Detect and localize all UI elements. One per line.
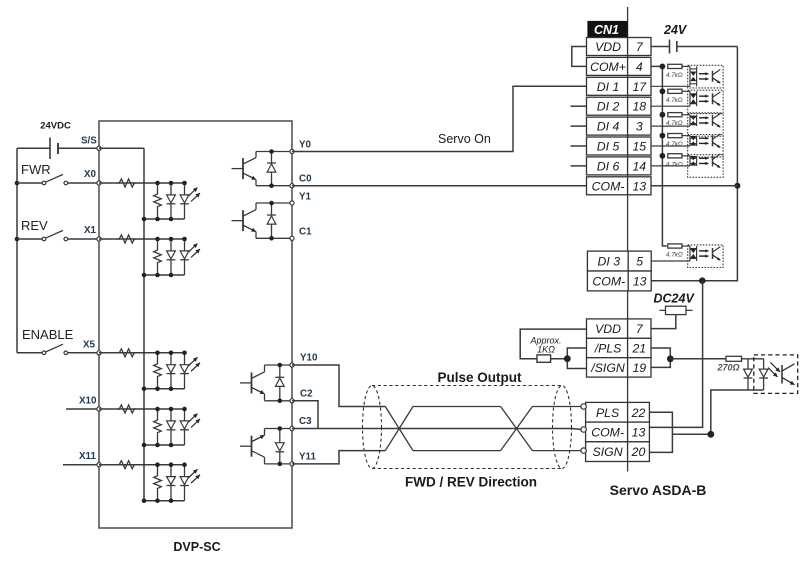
wire COM- 13 to rail [651, 185, 737, 187]
shielded cable outline (dashed capsule) [363, 386, 572, 469]
svg-text:DI 3: DI 3 [598, 255, 621, 269]
wire DI row 5 to opto [651, 165, 690, 167]
pin DI 2 18 [587, 97, 652, 115]
pin DI 4 3 [587, 117, 652, 135]
optocoupler DI isolator 6 [688, 245, 723, 268]
wire stub into DI 4 [571, 125, 587, 127]
LED light arrows X11 [189, 469, 198, 478]
diode clamp X5 [170, 353, 172, 365]
diode reverse clamp [747, 359, 749, 369]
wire resistor to opto 3 [682, 114, 690, 116]
svg-text:13: 13 [633, 274, 647, 288]
wire collector rail Q4 (C3/Y11) [265, 428, 293, 430]
node junctions X0 [142, 181, 187, 222]
wire collector rail Q1 (Y0/C0) [256, 151, 292, 153]
node 4.7k rail tap 2 [660, 88, 666, 94]
wire crossover 1 falling [385, 407, 413, 451]
wire VDD to Approx 1K resistor [520, 329, 586, 359]
wire resistor to opto 6 [682, 245, 690, 247]
node terminal C1 [290, 236, 294, 240]
wire C3 / cable middle to COM- [292, 429, 582, 430]
svg-text:COM-: COM- [591, 425, 624, 439]
resistor series X10 [117, 405, 137, 413]
svg-text:Y11: Y11 [299, 452, 316, 463]
LED opto-input X5 [184, 353, 186, 365]
diode flyback Q3 (Y10/C2) [275, 365, 284, 401]
wire stub into DI 5 [571, 145, 587, 147]
svg-text:14: 14 [632, 159, 646, 173]
wire top mid run [413, 406, 501, 408]
optocoupler DI isolator 4 [688, 134, 723, 157]
svg-text:DI 1: DI 1 [597, 80, 620, 94]
svg-text:PLS: PLS [596, 406, 620, 420]
diode clamp X1 [170, 239, 172, 251]
wire left-rail top to battery [17, 147, 50, 149]
resistor series X11 [117, 461, 137, 469]
wire emitter rail Q2 (Y1/C1) [256, 237, 292, 239]
node DI3 COM- junction [699, 277, 706, 284]
battery B1 24VDC [50, 138, 58, 160]
wire rail to switch FWR [17, 182, 42, 184]
LED opto-input X11 [184, 465, 186, 477]
svg-text:FWR: FWR [21, 162, 51, 177]
diode clamp X10 [170, 409, 172, 421]
svg-text:21: 21 [631, 342, 646, 356]
wire junction to 270 ohm [670, 358, 726, 360]
svg-text:4.7kΩ: 4.7kΩ [666, 120, 683, 127]
wire battery to S/S terminal [58, 147, 99, 149]
resistor 270 ohm [726, 356, 742, 361]
pin DI 1 17 [587, 77, 652, 95]
svg-text:ENABLE: ENABLE [22, 327, 74, 342]
pin COM- 13 [587, 177, 652, 195]
wire cable bottom to SIGN [532, 450, 581, 452]
node /PLS //SIGN junction [667, 355, 674, 362]
svg-text:S/S: S/S [81, 136, 97, 147]
wire stub into DI 6 [571, 165, 587, 167]
resistor 4.7k 2 [668, 89, 682, 93]
pin /PLS 21 [587, 338, 652, 357]
switch FWR [42, 174, 67, 184]
node terminal PLS cable [581, 404, 586, 409]
wire DI row 2 to opto [651, 105, 690, 107]
node terminal C2 [290, 399, 294, 403]
svg-text:COM-: COM- [592, 274, 625, 288]
node terminal C0 [290, 184, 294, 188]
wire Y10 to cable top [292, 365, 385, 407]
wire collector rail Q3 (Y10/C2) [265, 364, 293, 366]
diode flyback Q1 (Y0/C0) [267, 152, 276, 186]
wire resistor to opto 4 [682, 135, 690, 137]
DVP-SC PLC enclosure box [99, 121, 292, 528]
diode clamp X11 [170, 465, 172, 477]
resistor 4.7k 6 [668, 244, 682, 248]
node diode joints Q4 (C3/Y11) [278, 426, 283, 466]
wire REV switch to X1 [68, 238, 99, 240]
svg-text:DI 2: DI 2 [597, 100, 620, 114]
node 4.7k rail tap 5 [660, 153, 666, 159]
node LED return junction [707, 431, 714, 438]
svg-text:24VDC: 24VDC [40, 121, 71, 132]
node junctions X1 [142, 237, 187, 278]
svg-text:15: 15 [632, 140, 646, 154]
left common rail [16, 148, 18, 352]
wire crossover 2 rising [501, 407, 533, 451]
svg-text:Y1: Y1 [299, 192, 312, 203]
wire Servo On: Y0 to DI1 [292, 86, 587, 151]
wire bracket to LED return node [672, 433, 710, 435]
node terminal S/S [97, 146, 101, 150]
resistor shunt X1 [154, 239, 162, 274]
node terminal X0 [97, 181, 101, 185]
node junctions X10 [142, 407, 187, 448]
resistor 4.7k 5 [668, 154, 682, 158]
svg-text:5: 5 [636, 255, 643, 269]
wire X10 input [99, 408, 185, 410]
wire DI row 4 to opto [651, 145, 690, 147]
wire rail to switch REV [17, 238, 42, 240]
optocoupler servo pulse input box [754, 355, 798, 394]
svg-text:X11: X11 [79, 451, 96, 462]
wire PLS-SIGN right bracket [649, 412, 672, 452]
wire network bottom rail X5 [144, 388, 185, 390]
svg-text:17: 17 [632, 80, 647, 94]
svg-text:X0: X0 [84, 169, 97, 180]
pin DI 5 15 [587, 137, 652, 155]
phototransistor servo input [782, 364, 795, 385]
node junctions X11 [142, 462, 187, 503]
svg-text:VDD: VDD [595, 322, 621, 336]
LED opto-input X1 [184, 239, 186, 251]
node COM- 13 to rail [734, 183, 740, 189]
transistor output Q2 (Y1/C1) [232, 203, 257, 238]
node 4.7k rail tap 3 [660, 112, 666, 118]
node terminal C3 [290, 426, 294, 430]
svg-text:C3: C3 [299, 416, 312, 427]
svg-text:C0: C0 [299, 174, 312, 185]
svg-text:270Ω: 270Ω [717, 363, 740, 373]
node terminal X11 [97, 463, 101, 467]
wire emitter rail Q1 (Y0/C0) [256, 185, 292, 187]
node 1K junction [564, 355, 571, 362]
wire bottom mid run [413, 450, 501, 452]
LED light arrows X1 [189, 244, 198, 253]
node 4.7k rail tap 4 [660, 133, 666, 139]
wire S/S terminal to common rail [99, 147, 144, 149]
svg-text:SIGN: SIGN [593, 445, 623, 459]
wire network bottom rail X0 [144, 218, 185, 220]
svg-text:24V: 24V [663, 23, 688, 37]
svg-text:DI 6: DI 6 [597, 159, 620, 173]
svg-text:18: 18 [632, 100, 646, 114]
resistor shunt X5 [154, 353, 162, 388]
node junctions X5 [142, 351, 187, 392]
node terminal Y10 [290, 363, 294, 367]
wire Y11 to cable bottom [292, 451, 385, 464]
resistor 4.7k 1 [668, 64, 682, 68]
resistor 4.7k 3 [668, 113, 682, 117]
resistor shunt X0 [154, 183, 162, 218]
diode flyback Q2 (Y1/C1) [267, 203, 276, 238]
wire 1K resistor to /PLS //SIGN bracket [551, 358, 568, 360]
svg-text:Servo ASDA-B: Servo ASDA-B [610, 482, 707, 498]
svg-text:REV: REV [21, 218, 48, 233]
node terminal X5 [97, 351, 101, 355]
svg-text:DC24V: DC24V [654, 292, 696, 306]
pin DI 6 14 [587, 157, 652, 175]
LED light arrows X5 [189, 357, 198, 366]
wire DI row 1 to opto [651, 85, 690, 87]
wire stub into DI 2 [571, 105, 587, 107]
wire VDD-COM+ left bracket [572, 47, 587, 67]
svg-text:CN1: CN1 [594, 23, 619, 37]
svg-text:7: 7 [636, 322, 644, 336]
svg-text:Servo On: Servo On [438, 132, 491, 146]
vertical bus line through connector tables [627, 7, 629, 472]
LED opto-input X0 [184, 183, 186, 195]
node FWR tap [15, 181, 20, 186]
wire DI3 row to opto [651, 260, 690, 262]
svg-text:/SIGN: /SIGN [590, 361, 625, 375]
svg-text:4.7kΩ: 4.7kΩ [666, 141, 683, 148]
resistor Approx 1K [537, 355, 551, 362]
svg-text:FWD / REV Direction: FWD / REV Direction [405, 475, 537, 490]
node diode joints Q3 (Y10/C2) [278, 363, 283, 403]
optocoupler DI isolator 1 [688, 65, 723, 88]
switch ENABLE [42, 344, 67, 354]
wire X0 input [99, 182, 185, 184]
wire network bottom rail X1 [144, 274, 185, 276]
svg-text:Y0: Y0 [299, 140, 312, 151]
diode clamp X0 [170, 183, 172, 195]
node diode joints Q1 (Y0/C0) [269, 149, 274, 188]
transistor output Q3 (Y10/C2) [240, 365, 265, 401]
pin VDD 7 [587, 38, 652, 56]
pin VDD 7 [587, 319, 652, 338]
LED opto-input X10 [184, 409, 186, 421]
wire X1 input [99, 238, 185, 240]
wire X5 input [99, 352, 185, 354]
svg-text:20: 20 [631, 445, 646, 459]
wire COM- to upper COM- rail [649, 281, 702, 428]
wire VDD 7 to capacitor [651, 46, 670, 48]
svg-text:C2: C2 [300, 389, 313, 400]
wire network bottom rail X10 [144, 444, 185, 446]
transistor output Q1 (Y0/C0) [232, 152, 257, 186]
svg-text:13: 13 [632, 425, 646, 439]
svg-text:1KΩ: 1KΩ [537, 345, 555, 355]
wire resistor to opto 1 [682, 65, 690, 67]
resistor series X5 [117, 349, 137, 357]
power supply DC24V fuse symbol [659, 306, 692, 314]
svg-text:COM+: COM+ [590, 60, 626, 74]
svg-text:19: 19 [632, 361, 646, 375]
wire C2-C3 jumper [292, 401, 318, 429]
resistor shunt X10 [154, 409, 162, 444]
LED light arrows [768, 368, 778, 378]
svg-text:3: 3 [636, 120, 643, 134]
svg-text:DVP-SC: DVP-SC [173, 540, 220, 554]
capacitor 24V supply [670, 40, 677, 54]
wire cable top to PLS [532, 406, 581, 408]
svg-text:Y10: Y10 [300, 353, 318, 364]
wire ENABLE switch to X5 [68, 352, 99, 354]
svg-text:X1: X1 [84, 225, 97, 236]
svg-text:DI 4: DI 4 [597, 120, 620, 134]
node 4.7k rail tap 1 [660, 64, 666, 70]
resistor 4.7k 4 [668, 134, 682, 138]
wire /PLS /SIGN left bracket [567, 348, 586, 369]
svg-text:4.7kΩ: 4.7kΩ [666, 97, 683, 104]
wire DI row 3 to opto [651, 125, 690, 127]
pin COM+ 4 [587, 57, 652, 75]
wire COM+ 4.7k rail [651, 66, 667, 246]
wire resistor to opto 5 [682, 155, 690, 157]
optocoupler DI isolator 3 [688, 114, 723, 137]
wire X11 stub [63, 464, 99, 466]
node terminal Y11 [290, 462, 294, 466]
wire network bottom rail X11 [144, 500, 185, 502]
pin COM- 13 [586, 422, 650, 442]
wire rail to switch ENABLE [17, 352, 42, 354]
wire X10 stub [66, 408, 99, 410]
svg-text:4: 4 [636, 60, 643, 74]
pin COM- 13 [587, 271, 651, 291]
LED light arrows X10 [189, 414, 198, 423]
wire crossover 1 rising [385, 407, 413, 451]
wire /PLS right [651, 348, 670, 359]
wire /SIGN right [651, 359, 670, 368]
wire right 24V rail down [651, 47, 737, 281]
resistor series X1 [117, 235, 137, 243]
wire resistor to opto 2 [682, 90, 690, 92]
node terminal Y1 [290, 201, 294, 205]
wire FWR switch to X0 [68, 182, 99, 184]
svg-text:4.7kΩ: 4.7kΩ [666, 252, 683, 259]
node REV tap [15, 237, 20, 242]
switch REV [42, 230, 67, 240]
resistor shunt X11 [154, 465, 162, 500]
connector CN1 header [587, 21, 627, 37]
svg-text:4.7kΩ: 4.7kΩ [666, 72, 683, 79]
node terminal COM- cable [581, 427, 586, 432]
node terminal Y0 [290, 149, 294, 153]
node terminal X10 [97, 407, 101, 411]
diode flyback Q4 (C3/Y11) [275, 429, 284, 464]
svg-text:DI 5: DI 5 [597, 140, 620, 154]
node terminal SIGN cable [581, 448, 586, 453]
wire emitter rail Q3 (Y10/C2) [265, 400, 293, 402]
wire collector rail Q2 (Y1/C1) [256, 202, 292, 204]
svg-text:X5: X5 [83, 340, 96, 351]
S/S common rail inside PLC [143, 148, 145, 500]
wire DC24V to VDD 7 [651, 315, 676, 329]
svg-text:C1: C1 [299, 227, 312, 238]
svg-text:13: 13 [632, 179, 646, 193]
wire LED return [711, 390, 764, 434]
pin PLS 22 [586, 402, 650, 422]
optocoupler DI isolator 5 [688, 154, 723, 177]
wire capacitor to right rail [677, 46, 738, 48]
wire X11 input [99, 464, 185, 466]
node terminal X1 [97, 237, 101, 241]
wire emitter rail Q4 (C3/Y11) [265, 463, 293, 465]
svg-text:VDD: VDD [595, 40, 621, 54]
pin SIGN 20 [586, 442, 650, 462]
svg-text:Pulse Output: Pulse Output [438, 370, 523, 385]
LED light arrows X0 [189, 188, 198, 197]
svg-text:22: 22 [631, 406, 646, 420]
pin /SIGN 19 [587, 358, 652, 377]
svg-text:7: 7 [636, 40, 644, 54]
wire crossover 2 falling [501, 407, 533, 451]
node diode joints Q2 (Y1/C1) [269, 201, 274, 241]
resistor series X0 [117, 179, 137, 187]
svg-text:4.7kΩ: 4.7kΩ [666, 161, 683, 168]
svg-text:COM-: COM- [592, 179, 625, 193]
transistor output Q4 (C3/Y11) [240, 429, 265, 464]
LED servo input [763, 359, 765, 369]
optocoupler DI isolator 2 [688, 90, 723, 113]
svg-text:X10: X10 [79, 396, 97, 407]
pin DI 3 5 [587, 251, 651, 271]
svg-text:/PLS: /PLS [594, 342, 622, 356]
wire C0 to COM- (13) [292, 185, 587, 187]
wire 270 ohm to diodes [742, 358, 764, 360]
